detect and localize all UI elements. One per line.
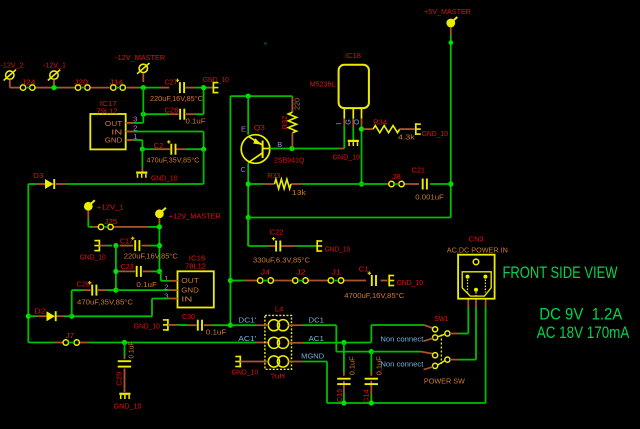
annotation DC 9V 1.2A (539, 304, 623, 323)
junction C15 bottom (341, 400, 346, 405)
wire C2 row (142, 148, 203, 150)
switch SW1 pole1 (424, 327, 451, 342)
inductor L4 dashed box (265, 315, 292, 369)
label GND_10 under C29 (114, 403, 142, 410)
svg-text:OUT: OUT (181, 278, 199, 285)
label Q3 (254, 125, 265, 132)
switch SW1 pole2 (424, 353, 451, 370)
power flag +12V_1 (84, 200, 95, 227)
capacitor C26 (88, 281, 96, 296)
net label AC1 (309, 334, 325, 343)
IC17 pin stub 1 (126, 139, 134, 141)
wire MGND left lead (240, 361, 268, 363)
jumper J14 (111, 85, 126, 90)
IC18 lead IN (343, 108, 345, 119)
svg-text:4700uF,16V,85°C: 4700uF,16V,85°C (344, 292, 404, 300)
wire -12V horizontal rail y=87.6 (10, 87, 213, 89)
net label Non connect lower (380, 359, 423, 368)
label C1 (359, 266, 369, 273)
junction C21 right (448, 181, 453, 186)
wire D2 row (28, 315, 71, 317)
label C14 (rotated) (363, 389, 370, 403)
wire C28 branch (143, 88, 203, 115)
wire C23 column (115, 246, 117, 291)
svg-text:C: C (241, 167, 246, 174)
svg-text:IN: IN (111, 130, 122, 137)
value 0.1uF (C14 rotated) (377, 356, 384, 375)
svg-text:GND_10: GND_10 (397, 280, 424, 287)
svg-text:C1: C1 (359, 266, 369, 273)
net label MGND (301, 352, 324, 361)
label -12V_MASTER (115, 53, 165, 62)
svg-text:C17: C17 (120, 239, 133, 246)
jumper J8 (389, 181, 404, 186)
wire C26 riser (71, 290, 73, 316)
wire AC1 right (289, 325, 433, 343)
node C2-left junction (140, 147, 145, 152)
svg-text:0.1uF: 0.1uF (186, 119, 206, 126)
label C22 (270, 229, 284, 236)
value 220 (rotated) (294, 98, 301, 110)
op-amp/regulator IC17 79L12 box (90, 114, 125, 149)
label 79L12 (97, 108, 118, 115)
svg-text:AC1: AC1 (309, 334, 325, 343)
label ?uH (271, 373, 286, 380)
capacitor C17 (131, 237, 139, 252)
wire C30 row (168, 324, 231, 326)
regulator IC18 M5236L body (339, 65, 369, 108)
wire left vertical rail (27, 184, 29, 343)
label GND_10 at C30 row (134, 324, 160, 331)
value 4.3k (398, 134, 415, 141)
svg-text:C14: C14 (363, 389, 370, 403)
svg-text:470uF,35V,85°C: 470uF,35V,85°C (77, 299, 133, 307)
wire +5V column (450, 35, 452, 218)
label C26 (77, 281, 91, 288)
wire -12V_MASTER column to IC17 pin3 (134, 88, 143, 123)
junction C17 right (157, 243, 162, 248)
svg-text:GND_10: GND_10 (80, 255, 106, 262)
junction C26 right / IC16 pin2 row (113, 288, 118, 293)
wire DC1 to switch pole2 (371, 352, 433, 354)
IC18 pin letter O (rotated) (352, 119, 361, 125)
wire C15 branch (343, 343, 345, 404)
annotation FRONT SIDE VIEW (503, 263, 618, 282)
svg-text:?uH: ?uH (271, 373, 286, 380)
value 0.1uF (C28) (186, 119, 206, 126)
wire C23 row (119, 270, 160, 272)
svg-text:GND_10: GND_10 (151, 175, 178, 182)
wire SW1 pole1 common to CN3 left pin (450, 299, 468, 334)
svg-text:J4: J4 (261, 270, 271, 277)
connector CN3 outline (458, 255, 495, 299)
capacitor C30 (198, 320, 202, 331)
IC18 pin letter I (rotated) (334, 123, 343, 125)
svg-text:DC1: DC1 (309, 315, 325, 324)
junction D2 right / C26 branch (69, 314, 74, 319)
CN3 pin left (466, 275, 470, 293)
junction -12V_1 tap (51, 85, 56, 90)
Q3 pin letter C (241, 167, 246, 174)
junction rail / J4 row (228, 278, 233, 283)
label C15 (rotated) (337, 388, 344, 402)
wire C17 row (99, 245, 159, 247)
svg-text:GND: GND (181, 287, 199, 294)
net label DC1' (238, 316, 257, 325)
value 0.1uF (C23) (136, 282, 157, 289)
value 220uF,16V,85°C (C17) (124, 253, 178, 261)
junction C23 left (113, 269, 118, 274)
svg-text:Non connect: Non connect (380, 334, 423, 343)
junction J25 tap (157, 224, 162, 229)
svg-text:M5236L: M5236L (310, 81, 336, 88)
IC17 pin stub 3 (126, 122, 134, 124)
L4 winding AC (268, 337, 288, 348)
wire R33 row (248, 183, 451, 185)
capacitor C14 (365, 379, 378, 384)
svg-text:220uF,16V,85°C: 220uF,16V,85°C (124, 253, 178, 261)
wire Q3 base row (270, 119, 345, 149)
svg-text:IC17: IC17 (100, 101, 117, 108)
transistor Q3 2SB941Q (241, 135, 270, 164)
svg-text:MGND: MGND (301, 352, 324, 361)
label GND_10 at R34 (422, 131, 449, 138)
IC16 pin stub 1 (169, 280, 178, 282)
svg-text:2: 2 (164, 284, 169, 291)
svg-text:0.1uF: 0.1uF (349, 356, 356, 375)
wire IC18 OUT column (361, 119, 363, 184)
power flag -12V_1 (48, 70, 60, 88)
wire main DC rail vertical x=230.4 (229, 96, 231, 325)
label J8 (392, 174, 401, 181)
junction -12V_MASTER tap (141, 85, 146, 90)
svg-text:C29: C29 (116, 372, 123, 386)
label R32 (rotated) (282, 116, 289, 130)
svg-text:SW1: SW1 (435, 316, 449, 323)
power flag -12V_MASTER (137, 63, 149, 82)
wire top loop y=96.1 (230, 95, 291, 97)
wire DC1' lead (230, 324, 268, 326)
wire loop bottom y=217.5 (248, 217, 451, 219)
label R34 (373, 119, 387, 126)
resistor R32 (288, 96, 296, 148)
svg-text:GND_10: GND_10 (422, 131, 449, 138)
IC17 pin stub 2 (126, 131, 134, 133)
net label AC1' (238, 334, 257, 343)
IC16 pin stub 2 (169, 289, 178, 291)
svg-text:R33: R33 (267, 173, 280, 180)
power flag -12V_2 (4, 70, 16, 88)
IC16 pin name IN (181, 296, 192, 303)
label D2 (35, 308, 46, 315)
label C30 (182, 314, 195, 321)
label GND_10 at L4 (232, 370, 259, 377)
wire J25 row (88, 226, 159, 228)
label C2 (154, 143, 164, 150)
wire IC16 pin1 jog to C23 node (161, 271, 169, 280)
svg-text:D3: D3 (33, 173, 44, 180)
value 470uF,35V,85°C (C26) (77, 299, 133, 307)
IC18 lead GND (352, 108, 354, 119)
svg-text:220: 220 (294, 98, 301, 110)
label IC17 (100, 101, 117, 108)
junction R34 tap (359, 127, 364, 132)
junction D2 tap on left rail (26, 314, 31, 319)
svg-text:E: E (241, 126, 246, 133)
wire IC17 pin1 GND to C2 node (134, 140, 142, 149)
label D3 (33, 173, 44, 180)
node C2-right junction (201, 147, 206, 152)
svg-text:J25: J25 (104, 219, 117, 226)
IC18 lead OUT (361, 108, 363, 119)
svg-text:OUT: OUT (105, 121, 123, 128)
wire IC16 pin2 GND row (116, 289, 169, 291)
svg-text:I: I (334, 123, 343, 125)
svg-text:R32: R32 (282, 116, 289, 130)
IC17 pin name IN (111, 130, 122, 137)
power flag +5V_MASTER (446, 17, 457, 35)
wire C2 node to ground (141, 149, 143, 172)
IC16 pin number 1 (164, 276, 169, 283)
svg-text:-12V_MASTER: -12V_MASTER (115, 53, 165, 62)
svg-text:-12V_2: -12V_2 (1, 61, 24, 70)
junction C14 bottom (369, 400, 374, 405)
wire C14 branch (370, 352, 372, 403)
capacitor C28 (180, 109, 184, 120)
label C28 (165, 108, 179, 115)
wire IC18 GND lead down (352, 119, 354, 140)
svg-text:78L12: 78L12 (185, 264, 206, 271)
ground GND_10 top right (213, 82, 218, 94)
junction R33 row (246, 181, 251, 186)
svg-text:J1: J1 (332, 270, 342, 277)
IC18 pin letter G (rotated) (344, 119, 353, 125)
wire SW1 pole2 common to CN3 center pin (450, 299, 476, 360)
label C27 (165, 80, 178, 87)
label GND_10 under IC18 (333, 154, 361, 161)
label J20 (74, 79, 88, 86)
label POWER SW (424, 376, 465, 385)
IC17 pin name OUT (105, 121, 123, 128)
svg-text:C21: C21 (412, 168, 426, 175)
capacitor C1 (368, 272, 376, 287)
svg-text:AC 18V 170mA: AC 18V 170mA (537, 323, 630, 342)
node C27 GND junction (201, 85, 206, 90)
svg-text:+5V_MASTER: +5V_MASTER (424, 7, 471, 16)
stray dot (264, 42, 267, 45)
label GND_10 at C22 (325, 246, 351, 253)
svg-text:Q3: Q3 (254, 125, 265, 132)
value 220uF,16V,85°C (C27) (150, 95, 203, 103)
wire C26 row (72, 289, 116, 291)
capacitor C2 (167, 140, 175, 155)
label -12V_2 (1, 61, 24, 70)
svg-text:C26: C26 (77, 281, 91, 288)
label M5236L (310, 81, 336, 88)
svg-text:AC,DC POWER IN: AC,DC POWER IN (447, 248, 508, 255)
value 470uF,35V,85°C (C2) (147, 157, 200, 165)
switch SW1 gang link (dashed) (440, 335, 442, 365)
wire C22 branch (248, 218, 316, 247)
resistor R33 (275, 179, 292, 189)
CN3 top hole (473, 259, 479, 265)
power flag +12V_MASTER (155, 208, 166, 224)
junction C14 tap on DC1 jog (369, 349, 374, 354)
label GND_10 under IC17 (151, 175, 178, 182)
jumper J25 (98, 224, 113, 229)
annotation AC 18V 170mA (537, 323, 630, 342)
L4 winding DC (268, 320, 288, 331)
svg-text:13k: 13k (292, 190, 307, 197)
label IC18 (345, 53, 361, 60)
junction J8 row tap (359, 181, 364, 186)
svg-text:J14: J14 (109, 79, 123, 86)
label 78L12 (185, 264, 206, 271)
jumper J1 (328, 278, 344, 283)
junction C17 row / C23 column (113, 243, 118, 248)
capacitor C29 (118, 361, 131, 366)
jumper J4 (258, 278, 274, 283)
ground GND_10 at C17 row (94, 240, 99, 252)
wire IC16 pin3 IN column (72, 299, 169, 317)
wire MGND right (289, 362, 327, 404)
wire J4 row y=280.5 (230, 280, 387, 282)
value 4700uF,16V,85°C (344, 292, 404, 300)
svg-text:DC1': DC1' (238, 316, 257, 325)
capacitor C27 (176, 79, 184, 94)
svg-text:0.1uF: 0.1uF (206, 329, 227, 336)
value 0.1uF (C15 rotated) (349, 356, 356, 375)
svg-text:C23: C23 (121, 264, 134, 271)
junction Q3 emitter column (246, 94, 251, 99)
svg-text:AC1': AC1' (238, 334, 257, 343)
value 0.1uF (C30) (206, 329, 227, 336)
wire Q3 emitter (247, 96, 249, 135)
label J25 (104, 219, 117, 226)
CN3 pin center (474, 288, 478, 296)
svg-text:3: 3 (164, 294, 169, 301)
Q3 pin letter E (241, 126, 246, 133)
ground GND_10 at MGND winding (235, 356, 240, 368)
svg-text:GND_10: GND_10 (203, 77, 229, 84)
value 13k (292, 190, 307, 197)
ground GND_10 under IC17 (136, 173, 147, 178)
svg-text:R34: R34 (373, 119, 387, 126)
junction C28-left on -12V_MASTER column (141, 112, 146, 117)
svg-text:L4: L4 (275, 307, 284, 314)
svg-text:330uF,6.3V,85°C: 330uF,6.3V,85°C (253, 256, 310, 264)
junction C29 tap (122, 340, 127, 345)
jumper J24 (20, 85, 35, 90)
jumper J20 (75, 85, 90, 90)
label J7 (66, 333, 75, 340)
label -12V_1 (43, 61, 66, 70)
wire IC17 pin2 IN row (134, 132, 204, 150)
svg-text:4.3k: 4.3k (398, 134, 415, 141)
diode D2 (47, 311, 56, 321)
label IC16 (189, 256, 206, 263)
label 2SB941Q (274, 157, 305, 164)
IC17 pin name GND (105, 138, 123, 145)
svg-text:J20: J20 (74, 79, 88, 86)
svg-text:POWER SW: POWER SW (424, 376, 465, 385)
svg-text:470uF,35V,85°C: 470uF,35V,85°C (147, 157, 200, 165)
svg-text:C22: C22 (270, 229, 284, 236)
svg-text:0.1uF: 0.1uF (129, 342, 136, 359)
label GND_10 at C17 row (80, 255, 106, 262)
svg-text:J2: J2 (296, 270, 306, 277)
junction R32 bottom (289, 146, 294, 151)
svg-text:DC 9V 1.2A: DC 9V 1.2A (539, 304, 623, 323)
capacitor C21 (423, 179, 427, 190)
svg-text:+12V_MASTER: +12V_MASTER (169, 211, 221, 220)
IC16 pin name OUT (181, 278, 199, 285)
label AC,DC POWER IN (447, 248, 508, 255)
CN3 face shape (462, 272, 491, 296)
jumper J7 (63, 340, 79, 345)
svg-text:GND_10: GND_10 (114, 403, 142, 410)
IC17 pin number 1 (133, 134, 138, 141)
svg-text:J8: J8 (392, 174, 401, 181)
svg-text:+12V_1: +12V_1 (97, 203, 124, 212)
svg-text:79L12: 79L12 (97, 108, 118, 115)
label CN3 (469, 236, 484, 243)
label C21 (412, 168, 426, 175)
capacitor C22 (272, 237, 280, 252)
wire bottom MGND run (327, 299, 486, 403)
wire J7 row y=342.5 (28, 342, 268, 344)
svg-text:0.1uF: 0.1uF (136, 282, 157, 289)
CN3 pin right (483, 275, 487, 293)
svg-text:1: 1 (164, 276, 169, 283)
label J1 (332, 270, 342, 277)
wire Q3 collector column (247, 163, 249, 246)
IC16 pin name GND (181, 287, 199, 294)
svg-text:220uF,16V,85°C: 220uF,16V,85°C (150, 95, 203, 103)
svg-text:J7: J7 (66, 333, 75, 340)
label R33 (267, 173, 280, 180)
svg-text:CN3: CN3 (469, 236, 484, 243)
wire R32 top corner (291, 95, 294, 97)
value 0.001uF (415, 194, 444, 201)
svg-text:GND_10: GND_10 (134, 324, 160, 331)
svg-text:C2: C2 (154, 143, 164, 150)
svg-text:C28: C28 (165, 108, 179, 115)
ground GND_10 at C30 row (163, 319, 168, 331)
svg-text:IC18: IC18 (345, 53, 361, 60)
svg-text:J24: J24 (22, 79, 36, 86)
svg-text:GND_10: GND_10 (325, 246, 351, 253)
net label DC1 (309, 315, 325, 324)
label C29 (rotated) (116, 372, 123, 386)
ground GND_10 at C22 (317, 240, 322, 252)
IC16 pin stub 3 (169, 298, 178, 300)
svg-text:Non connect: Non connect (380, 359, 423, 368)
svg-text:FRONT SIDE VIEW: FRONT SIDE VIEW (503, 263, 618, 282)
wire DC1 right (289, 325, 372, 351)
wire C29 branch (124, 343, 126, 393)
label SW1 (435, 316, 449, 323)
diode D3 (45, 179, 54, 189)
junction rail / DC1' row (228, 323, 233, 328)
value 0.1uF (C29 rotated) (129, 342, 136, 359)
IC17 pin number 3 (133, 117, 138, 124)
capacitor C23 (137, 266, 141, 277)
svg-text:3: 3 (133, 117, 138, 124)
IC16 pin number 3 (164, 294, 169, 301)
svg-text:GND_10: GND_10 (232, 370, 259, 377)
IC17 pin number 2 (133, 125, 138, 132)
